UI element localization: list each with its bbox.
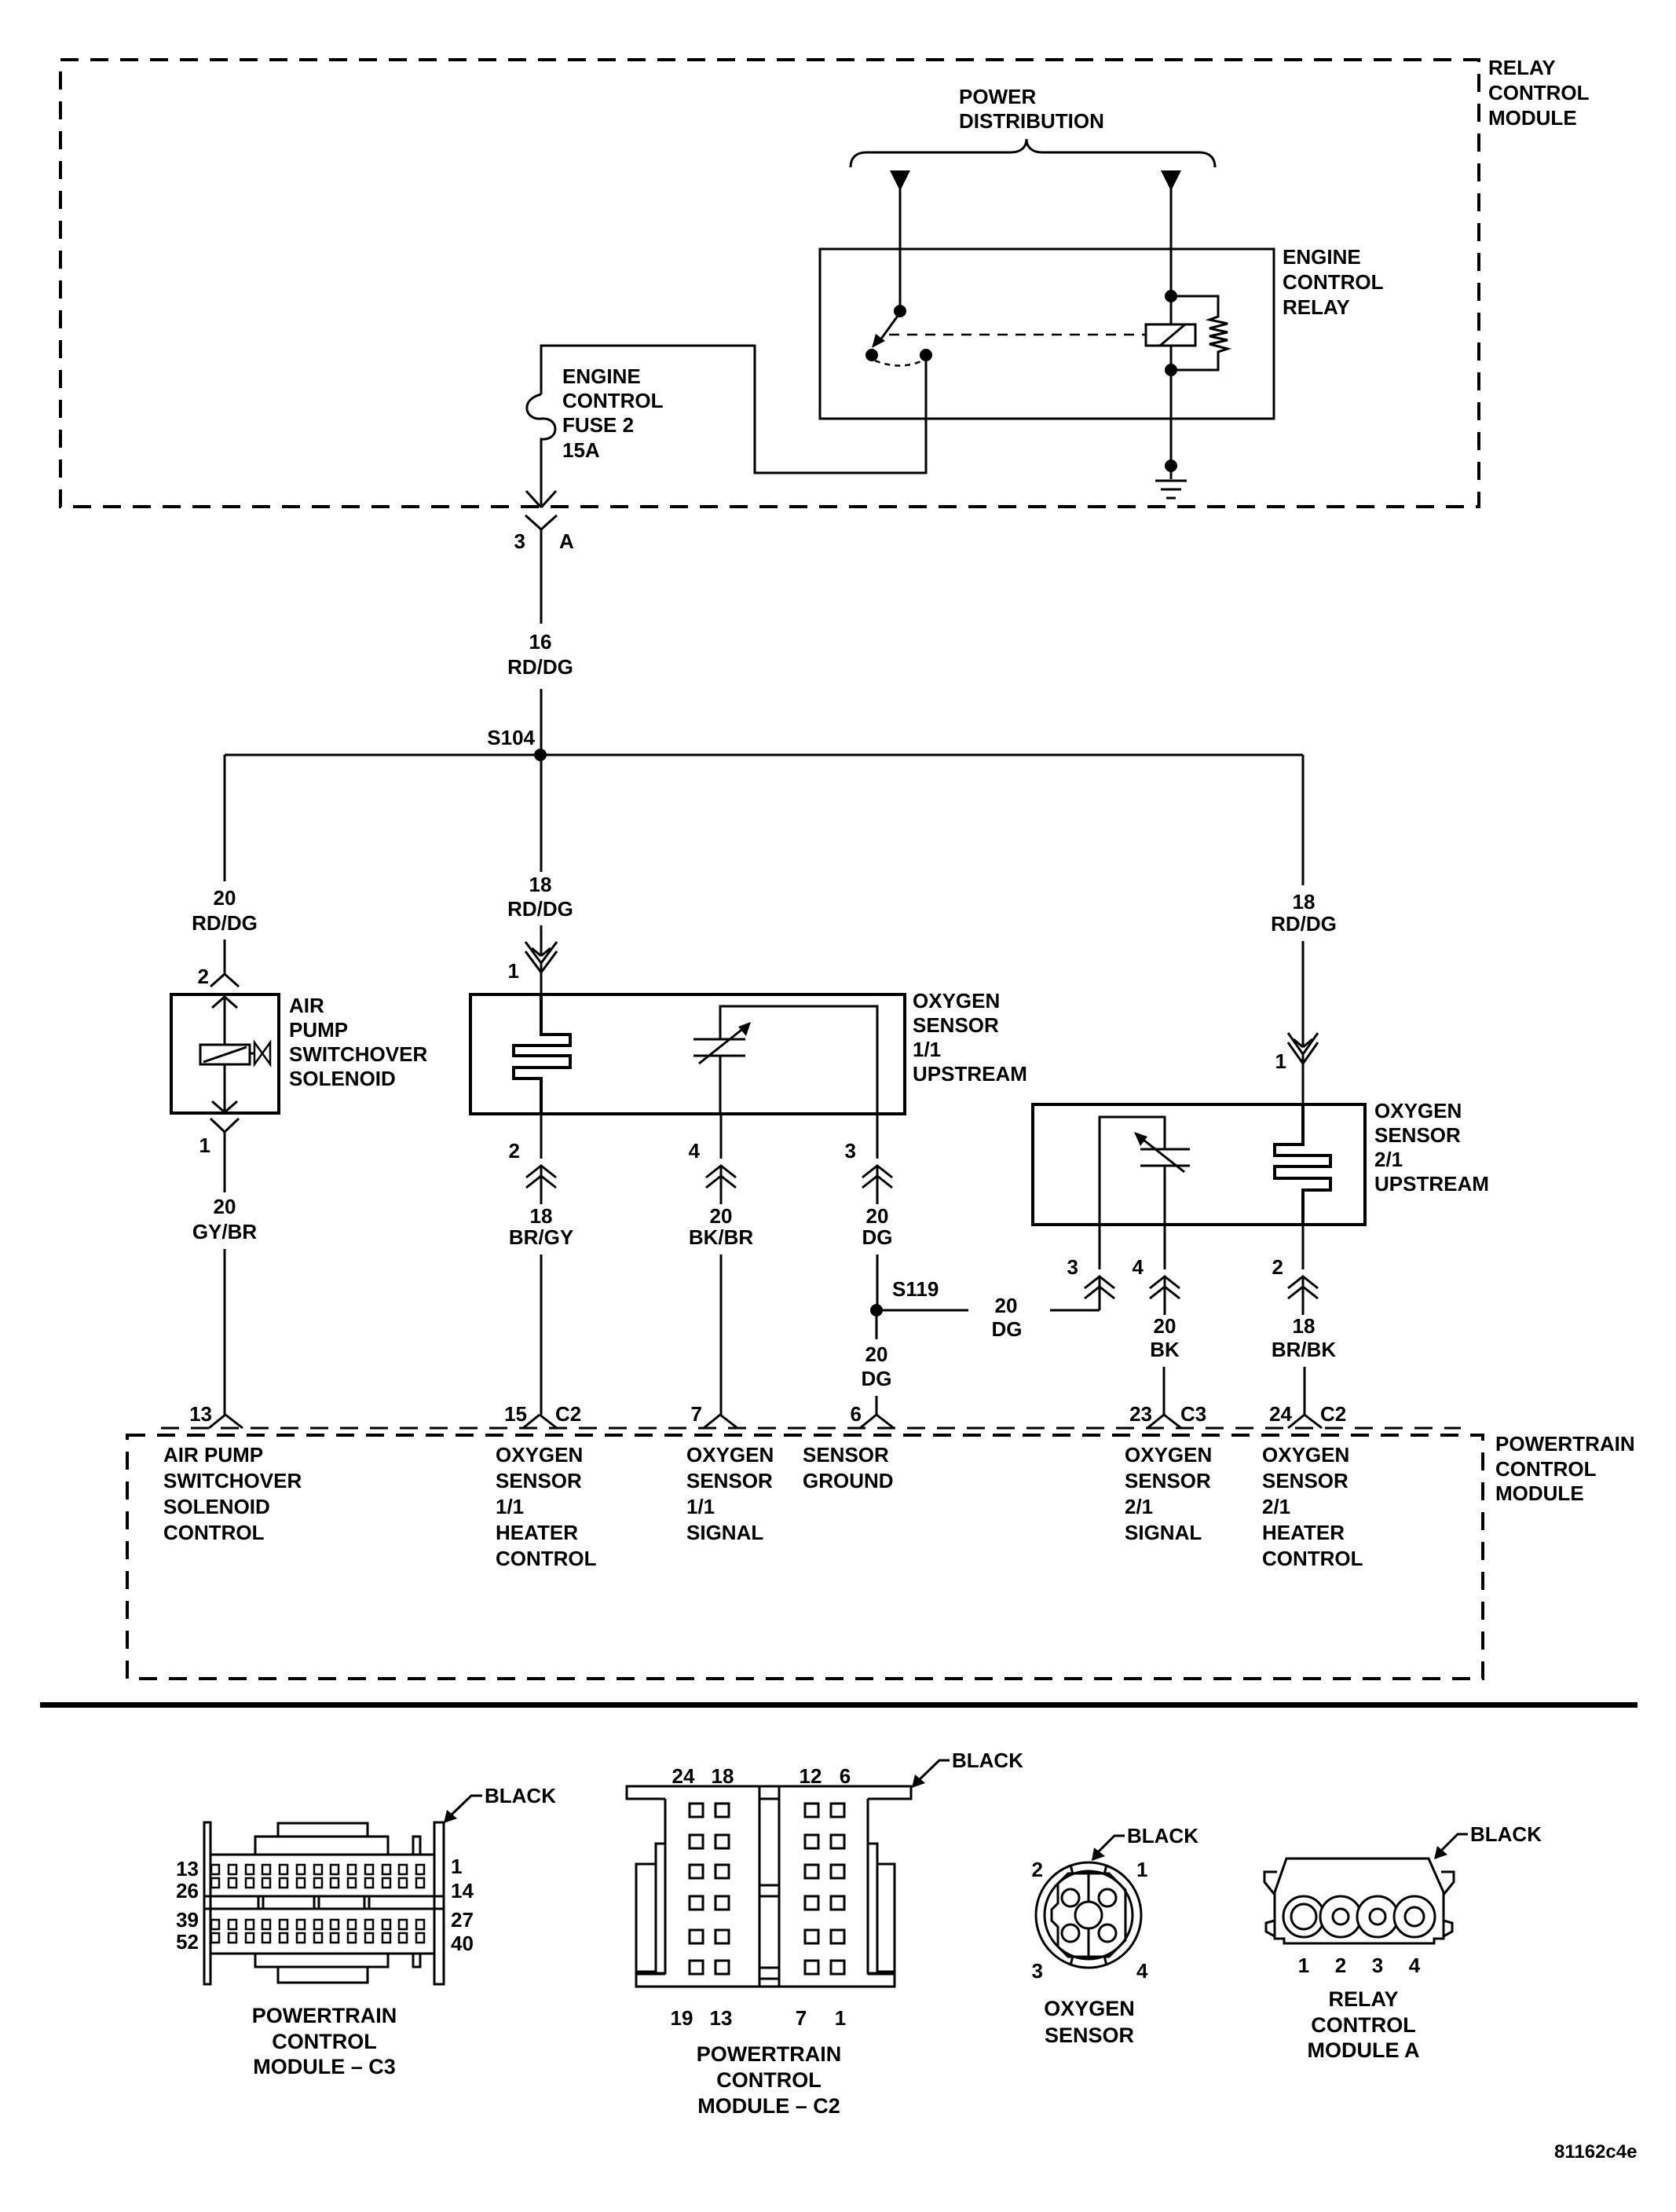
svg-text:4: 4 xyxy=(1133,1255,1144,1279)
svg-text:20: 20 xyxy=(214,1195,236,1218)
svg-text:DG: DG xyxy=(992,1317,1023,1341)
svg-text:15A: 15A xyxy=(562,438,600,462)
svg-text:6: 6 xyxy=(840,1764,851,1788)
svg-text:BK: BK xyxy=(1150,1338,1180,1361)
svg-text:1: 1 xyxy=(1136,1858,1147,1881)
label OXYGEN SENSOR xyxy=(1044,1997,1135,2047)
svg-text:4: 4 xyxy=(1409,1954,1421,1977)
svg-text:SENSOR: SENSOR xyxy=(913,1013,999,1037)
coil top node xyxy=(1165,290,1177,302)
svg-text:SENSOR: SENSOR xyxy=(803,1443,889,1467)
svg-text:FUSE 2: FUSE 2 xyxy=(562,413,634,437)
svg-text:POWERTRAIN: POWERTRAIN xyxy=(1495,1432,1635,1456)
label POWERTRAIN CONTROL MODULE - C3 xyxy=(252,2004,397,2078)
relay control module A connector xyxy=(1264,1859,1454,1943)
PCM pin function labels xyxy=(163,1443,302,1544)
svg-text:RD/DG: RD/DG xyxy=(192,911,258,935)
svg-text:ENGINE: ENGINE xyxy=(1283,245,1361,269)
svg-text:UPSTREAM: UPSTREAM xyxy=(913,1062,1027,1086)
svg-text:2/1: 2/1 xyxy=(1374,1148,1403,1171)
O2 1/1 pin 2 connector xyxy=(540,1114,543,1159)
svg-text:SENSOR: SENSOR xyxy=(686,1469,773,1492)
PCM C2 connector body xyxy=(627,1786,911,1987)
svg-text:3: 3 xyxy=(1372,1954,1383,1977)
dashed arc between contacts xyxy=(875,361,923,366)
svg-text:15: 15 xyxy=(504,1402,527,1426)
wire 20 DG to sensor ground xyxy=(876,1310,878,1339)
svg-text:HEATER: HEATER xyxy=(496,1521,578,1544)
svg-text:BK/BR: BK/BR xyxy=(689,1225,754,1249)
relay switch stationary contact node xyxy=(865,349,878,361)
svg-text:23: 23 xyxy=(1129,1402,1152,1426)
svg-text:AIR: AIR xyxy=(289,994,324,1017)
svg-text:BLACK: BLACK xyxy=(952,1749,1023,1772)
svg-text:POWERTRAIN: POWERTRAIN xyxy=(252,2004,397,2027)
svg-text:SENSOR: SENSOR xyxy=(1374,1123,1461,1147)
svg-text:1/1: 1/1 xyxy=(686,1495,715,1518)
svg-text:SWITCHOVER: SWITCHOVER xyxy=(289,1042,427,1066)
relay control module dashed box xyxy=(60,60,1479,507)
svg-text:SENSOR: SENSOR xyxy=(1262,1469,1348,1492)
svg-text:POWERTRAIN: POWERTRAIN xyxy=(697,2042,842,2066)
separator bar xyxy=(40,1702,1638,1708)
svg-text:3: 3 xyxy=(514,529,525,553)
solenoid internal wire and arrows xyxy=(212,996,237,1045)
wire 18 RD/DG right branch xyxy=(1302,755,1305,885)
svg-text:20: 20 xyxy=(214,886,236,910)
svg-text:DG: DG xyxy=(862,1367,892,1390)
fuse F2 xyxy=(527,394,555,507)
heater element O2 1/1 xyxy=(514,994,570,1114)
label POWERTRAIN CONTROL MODULE - C2 xyxy=(697,2042,842,2118)
PCM C2 pin field xyxy=(690,1804,844,1974)
engine control relay box xyxy=(820,249,1274,419)
svg-text:RD/DG: RD/DG xyxy=(507,897,573,921)
svg-text:13: 13 xyxy=(189,1402,212,1426)
svg-text:20: 20 xyxy=(1154,1314,1176,1338)
svg-text:OXYGEN: OXYGEN xyxy=(913,989,1000,1013)
svg-text:2: 2 xyxy=(1335,1954,1346,1977)
O2 2/1 pin 2 connector xyxy=(1302,1225,1305,1269)
svg-text:S104: S104 xyxy=(487,726,535,749)
relay switch arm xyxy=(880,313,900,341)
node S104 xyxy=(534,749,547,761)
svg-text:SENSOR: SENSOR xyxy=(1045,2023,1134,2047)
fuse output arrowhead xyxy=(526,491,556,507)
wire S119 to O2 2/1 pin 3 xyxy=(876,1309,968,1312)
label OXYGEN SENSOR 2/1 UPSTREAM xyxy=(1374,1099,1489,1196)
O2 1/1 pin 3 connector xyxy=(876,1114,879,1159)
svg-text:RELAY: RELAY xyxy=(1488,56,1556,79)
wire from right feed to relay coil xyxy=(1170,189,1173,298)
svg-text:7: 7 xyxy=(796,2006,807,2030)
PCM C3 connector body xyxy=(204,1822,444,1984)
PCM pin 7 xyxy=(704,1415,737,1428)
oxygen sensor connector xyxy=(1036,1862,1141,1968)
svg-text:CONTROL: CONTROL xyxy=(562,389,664,412)
svg-text:OXYGEN: OXYGEN xyxy=(1044,1997,1135,2020)
svg-text:18: 18 xyxy=(1293,890,1316,914)
svg-text:18: 18 xyxy=(529,873,552,896)
O2 2/1 pin 3 connector xyxy=(1099,1225,1101,1269)
power feed triangle left xyxy=(890,170,910,191)
O2 1/1 pin 4 connector xyxy=(720,1114,723,1159)
label POWER DISTRIBUTION xyxy=(959,85,1104,133)
svg-text:18: 18 xyxy=(712,1764,734,1788)
svg-text:24: 24 xyxy=(672,1764,695,1788)
svg-text:CONTROL: CONTROL xyxy=(1495,1457,1597,1481)
svg-text:20: 20 xyxy=(865,1342,888,1366)
svg-text:OXYGEN: OXYGEN xyxy=(1262,1443,1349,1467)
relay A connector pin labels xyxy=(1298,1954,1421,1977)
svg-text:18: 18 xyxy=(1293,1314,1316,1338)
svg-text:1/1: 1/1 xyxy=(496,1495,524,1518)
svg-text:A: A xyxy=(559,529,574,553)
svg-text:BLACK: BLACK xyxy=(485,1784,556,1807)
svg-text:C2: C2 xyxy=(555,1402,581,1426)
svg-text:27: 27 xyxy=(451,1908,474,1932)
label ENGINE CONTROL FUSE 2 15A xyxy=(562,364,664,462)
svg-text:SIGNAL: SIGNAL xyxy=(686,1521,763,1544)
svg-text:2/1: 2/1 xyxy=(1125,1495,1153,1518)
svg-text:SOLENOID: SOLENOID xyxy=(163,1495,270,1518)
svg-text:C2: C2 xyxy=(1320,1402,1346,1426)
wire coil to ground xyxy=(1170,370,1173,479)
wire 18 RD/DG middle branch xyxy=(540,755,543,872)
svg-text:SIGNAL: SIGNAL xyxy=(1125,1521,1202,1544)
svg-text:RD/DG: RD/DG xyxy=(1271,912,1337,936)
svg-text:1: 1 xyxy=(451,1855,462,1878)
svg-text:MODULE A: MODULE A xyxy=(1308,2038,1420,2062)
PCM pin 6 xyxy=(860,1415,894,1428)
svg-text:16: 16 xyxy=(529,630,552,654)
svg-text:CONTROL: CONTROL xyxy=(716,2068,821,2092)
svg-text:20: 20 xyxy=(710,1204,733,1228)
svg-text:ENGINE: ENGINE xyxy=(562,364,641,388)
label AIR PUMP SWITCHOVER SOLENOID xyxy=(289,994,427,1090)
svg-text:20: 20 xyxy=(866,1204,889,1228)
coil suppression resistor xyxy=(1171,296,1228,370)
svg-text:UPSTREAM: UPSTREAM xyxy=(1374,1172,1489,1196)
svg-text:12: 12 xyxy=(800,1764,822,1788)
svg-text:MODULE: MODULE xyxy=(1495,1481,1584,1505)
svg-text:GROUND: GROUND xyxy=(803,1469,894,1492)
svg-text:HEATER: HEATER xyxy=(1262,1521,1345,1544)
solenoid valve symbol xyxy=(250,1053,254,1055)
connector A pin 3 xyxy=(525,515,557,529)
sensing element O2 1/1 xyxy=(720,1006,877,1114)
svg-text:DISTRIBUTION: DISTRIBUTION xyxy=(959,109,1104,133)
inline connector O2 2/1 pin 1 xyxy=(1294,1039,1312,1047)
ground node xyxy=(1165,460,1177,472)
svg-text:4: 4 xyxy=(1136,1959,1148,1983)
svg-text:1: 1 xyxy=(1298,1954,1309,1977)
power feed triangle right xyxy=(1161,170,1181,191)
svg-text:CONTROL: CONTROL xyxy=(163,1521,265,1544)
svg-text:24: 24 xyxy=(1269,1402,1292,1426)
svg-text:1: 1 xyxy=(508,959,519,983)
svg-text:SENSOR: SENSOR xyxy=(1125,1469,1211,1492)
svg-text:40: 40 xyxy=(451,1932,474,1955)
svg-text:39: 39 xyxy=(176,1908,199,1932)
svg-text:2: 2 xyxy=(509,1139,520,1163)
svg-text:20: 20 xyxy=(995,1294,1018,1317)
label RELAY CONTROL MODULE xyxy=(1488,56,1590,130)
svg-text:CONTROL: CONTROL xyxy=(1488,81,1590,104)
svg-text:S119: S119 xyxy=(892,1277,939,1301)
wire 16 RD/DG xyxy=(540,550,543,624)
label POWERTRAIN CONTROL MODULE xyxy=(1495,1432,1635,1505)
brace xyxy=(851,139,1215,167)
PCM pin 24 C2 xyxy=(1288,1415,1322,1428)
dashed actuation link to coil xyxy=(889,334,1146,336)
svg-text:26: 26 xyxy=(176,1879,199,1903)
PCM connector row dashed line xyxy=(161,1427,1461,1430)
svg-text:OXYGEN: OXYGEN xyxy=(686,1443,774,1467)
svg-text:1: 1 xyxy=(199,1133,210,1157)
svg-text:52: 52 xyxy=(176,1930,199,1954)
coil bottom node xyxy=(1165,364,1177,376)
svg-text:GY/BR: GY/BR xyxy=(192,1220,258,1243)
svg-text:OXYGEN: OXYGEN xyxy=(1374,1099,1462,1122)
svg-text:2: 2 xyxy=(198,965,209,988)
svg-text:MODULE: MODULE xyxy=(1488,106,1577,130)
svg-text:18: 18 xyxy=(530,1204,553,1228)
svg-text:C3: C3 xyxy=(1180,1402,1206,1426)
PCM C3 pin field xyxy=(211,1865,424,1943)
wire switch output to fuse xyxy=(541,346,926,473)
svg-text:SOLENOID: SOLENOID xyxy=(289,1067,396,1090)
svg-text:BLACK: BLACK xyxy=(1127,1824,1198,1848)
wire 20 GY/BR xyxy=(224,1147,226,1192)
PCM pin 15 C2 xyxy=(523,1415,557,1428)
node S119 xyxy=(870,1304,883,1317)
svg-text:6: 6 xyxy=(851,1402,862,1426)
heater element O2 2/1 xyxy=(1275,1104,1330,1225)
svg-text:81162c4e: 81162c4e xyxy=(1554,2141,1637,2163)
wire 20 RD/DG left branch xyxy=(224,755,226,881)
PCM pin 23 C3 xyxy=(1147,1415,1181,1428)
powertrain control module dashed box xyxy=(127,1435,1483,1679)
svg-text:2/1: 2/1 xyxy=(1262,1495,1290,1518)
svg-text:MODULE – C3: MODULE – C3 xyxy=(253,2055,396,2078)
O2 2/1 pin 4 connector xyxy=(1164,1225,1166,1269)
air pump solenoid pin 2 xyxy=(210,974,239,987)
svg-text:DG: DG xyxy=(862,1225,893,1249)
svg-text:3: 3 xyxy=(845,1139,856,1163)
oxygen sensor 1/1 upstream box xyxy=(470,994,905,1114)
air pump solenoid pin 1 xyxy=(210,1119,239,1147)
svg-text:CONTROL: CONTROL xyxy=(1311,2013,1415,2037)
inline connector O2 1/1 pin 1 xyxy=(532,948,551,956)
svg-text:SWITCHOVER: SWITCHOVER xyxy=(163,1469,302,1492)
svg-text:CONTROL: CONTROL xyxy=(272,2030,376,2053)
svg-text:CONTROL: CONTROL xyxy=(1283,270,1384,294)
svg-text:RELAY: RELAY xyxy=(1283,295,1350,319)
svg-text:14: 14 xyxy=(451,1879,474,1903)
svg-text:BR/BK: BR/BK xyxy=(1272,1338,1337,1361)
relay coil xyxy=(1170,296,1173,324)
svg-text:OXYGEN: OXYGEN xyxy=(1125,1443,1212,1467)
svg-text:19: 19 xyxy=(671,2006,693,2030)
wire bus from S104 xyxy=(225,754,1303,756)
svg-text:PUMP: PUMP xyxy=(289,1018,348,1042)
sensing element O2 2/1 xyxy=(1100,1117,1165,1225)
label ENGINE CONTROL RELAY xyxy=(1283,245,1384,319)
svg-text:BR/GY: BR/GY xyxy=(509,1225,573,1249)
relay switch pivot node xyxy=(894,305,906,317)
oxygen sensor 2/1 upstream box xyxy=(1033,1104,1365,1225)
svg-text:MODULE – C2: MODULE – C2 xyxy=(697,2094,840,2118)
label RELAY CONTROL MODULE A xyxy=(1308,1987,1420,2062)
relay switch output node xyxy=(920,349,932,361)
svg-text:CONTROL: CONTROL xyxy=(496,1547,597,1570)
svg-text:BLACK: BLACK xyxy=(1470,1822,1542,1846)
svg-text:13: 13 xyxy=(710,2006,733,2030)
svg-text:3: 3 xyxy=(1032,1959,1043,1983)
label OXYGEN SENSOR 1/1 UPSTREAM xyxy=(913,989,1027,1086)
svg-text:1: 1 xyxy=(1275,1049,1286,1073)
wire from left feed to switch xyxy=(899,189,902,313)
svg-text:3: 3 xyxy=(1067,1255,1078,1279)
solenoid coil xyxy=(200,1045,250,1064)
ground symbol xyxy=(1155,481,1187,498)
air pump switchover solenoid box xyxy=(171,994,279,1113)
svg-text:SENSOR: SENSOR xyxy=(496,1469,582,1492)
svg-text:2: 2 xyxy=(1272,1255,1283,1279)
svg-text:4: 4 xyxy=(689,1139,701,1163)
svg-text:7: 7 xyxy=(691,1402,702,1426)
svg-text:RD/DG: RD/DG xyxy=(507,655,573,679)
solenoid lower wire with arrow xyxy=(212,1064,237,1112)
PCM pin 13 xyxy=(209,1415,243,1428)
svg-text:OXYGEN: OXYGEN xyxy=(496,1443,583,1467)
svg-text:1/1: 1/1 xyxy=(913,1038,941,1061)
svg-text:1: 1 xyxy=(835,2006,846,2030)
svg-text:RELAY: RELAY xyxy=(1328,1987,1398,2011)
svg-text:2: 2 xyxy=(1032,1858,1043,1881)
svg-text:CONTROL: CONTROL xyxy=(1262,1547,1363,1570)
svg-text:13: 13 xyxy=(176,1857,199,1881)
svg-text:POWER: POWER xyxy=(959,85,1036,108)
svg-text:AIR PUMP: AIR PUMP xyxy=(163,1443,263,1467)
